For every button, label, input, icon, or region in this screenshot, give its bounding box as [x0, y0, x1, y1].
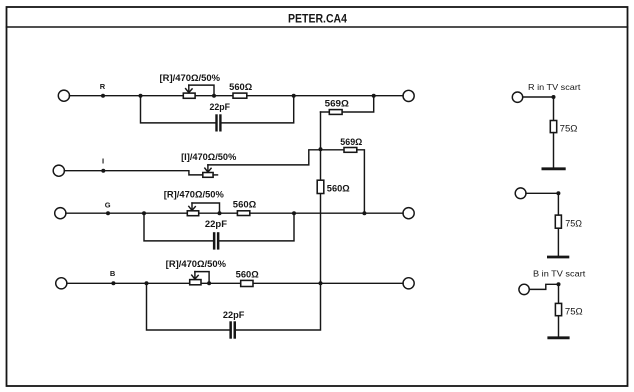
terminal G input [55, 208, 66, 219]
wire 569 to main vertical [321, 111, 330, 113]
wire B row main [67, 282, 403, 284]
svg-text:75Ω: 75Ω [565, 306, 583, 316]
terminal R output [403, 90, 414, 101]
svg-text:22pF: 22pF [223, 310, 245, 320]
node G label dot [106, 211, 110, 215]
resistor R3 569 body [329, 110, 342, 115]
resistor R9 75 body [555, 215, 561, 228]
terminal B scart [519, 284, 529, 294]
svg-text:G: G [105, 200, 111, 209]
svg-text:B: B [110, 269, 116, 278]
node B scart junction [557, 282, 561, 286]
ground G scart [548, 256, 568, 259]
wire main vertical bus [320, 112, 322, 283]
resistor R5 569 body [344, 148, 357, 153]
terminal R scart [512, 92, 522, 102]
node G cap right junction [292, 211, 296, 215]
potentiometer P1 wiper arrow [186, 85, 214, 96]
wire B cap branch right [236, 283, 320, 330]
potentiometer P4 body [190, 280, 201, 285]
potentiometer P2 body [203, 173, 213, 178]
wire R10 to ground [558, 316, 560, 338]
node R label dot [101, 94, 105, 98]
wire I row main [64, 171, 202, 175]
wire G cap branch [144, 213, 213, 241]
potentiometer P1 body [183, 93, 195, 98]
node R cap left junction [139, 94, 143, 98]
node G 569 junction [362, 211, 366, 215]
title separator line [7, 26, 628, 28]
svg-text:R in TV scart: R in TV scart [528, 82, 581, 92]
terminal B input [56, 278, 67, 289]
node G cap left junction [142, 211, 146, 215]
ground B scart [549, 336, 568, 339]
node R 569 branch junction [372, 94, 376, 98]
svg-text:560Ω: 560Ω [229, 82, 252, 92]
terminal B output [403, 278, 414, 289]
node P4 wiper junction [207, 281, 211, 285]
wire P2 right stub [213, 174, 217, 176]
potentiometer P2 wiper arrow [205, 150, 321, 172]
wire R5 down to G row [357, 150, 365, 213]
node B cap left junction [145, 281, 149, 285]
node P1 wiper junction [212, 94, 216, 98]
wire R9 to ground [557, 228, 559, 257]
node R cap right junction [292, 94, 296, 98]
potentiometer P3 body [187, 211, 198, 216]
resistor R10 75 body [555, 303, 561, 315]
resistor R4 560 vertical body [317, 180, 324, 193]
wire B scart [529, 284, 558, 303]
svg-text:22pF: 22pF [205, 219, 228, 229]
resistor R8 75 body [550, 121, 556, 133]
terminal G scart [515, 188, 526, 199]
node I wiper on vertical [319, 147, 323, 151]
svg-text:[R]/470Ω/50%: [R]/470Ω/50% [160, 73, 221, 83]
potentiometer P4 wiper arrow [192, 272, 209, 284]
potentiometer P3 wiper arrow [189, 203, 220, 213]
node G scart junction [556, 191, 560, 195]
node B label dot [111, 281, 115, 285]
terminal I input [53, 165, 64, 176]
wire R cap branch [141, 96, 216, 123]
wire R cap branch right [222, 96, 294, 123]
svg-text:R: R [100, 82, 106, 91]
svg-text:B in TV scart: B in TV scart [533, 269, 586, 279]
terminal R input [58, 90, 69, 101]
svg-text:560Ω: 560Ω [233, 199, 256, 209]
terminal G output [403, 208, 414, 219]
svg-text:569Ω: 569Ω [340, 137, 362, 147]
resistor R6 560 body [237, 211, 249, 216]
wire R scart [523, 97, 554, 121]
resistor R7 560 body [241, 280, 253, 286]
wire G scart [526, 193, 558, 215]
svg-text:560Ω: 560Ω [236, 269, 259, 279]
svg-text:75Ω: 75Ω [565, 218, 582, 228]
wire B cap branch [147, 283, 230, 330]
svg-text:569Ω: 569Ω [325, 99, 349, 109]
resistor R2 560 body [233, 93, 247, 98]
svg-text:22pF: 22pF [210, 102, 231, 112]
node P3 wiper junction [218, 211, 222, 215]
wire R row main [70, 95, 404, 97]
wire 569 branch from R row [342, 96, 374, 112]
svg-text:[R]/470Ω/50%: [R]/470Ω/50% [164, 189, 224, 199]
svg-text:560Ω: 560Ω [327, 184, 350, 194]
wire G row main [66, 212, 403, 214]
node I label dot [101, 169, 105, 173]
ground R scart [543, 167, 564, 170]
svg-text:PETER.CA4: PETER.CA4 [288, 12, 347, 26]
node R scart junction [552, 95, 556, 99]
svg-text:[I]/470Ω/50%: [I]/470Ω/50% [181, 152, 236, 162]
wire 569 second branch [321, 149, 345, 151]
svg-text:75Ω: 75Ω [560, 123, 578, 133]
capacitor C1 22pF plates [215, 114, 221, 131]
wire R8 to ground [553, 133, 555, 169]
node B vertical junction [319, 281, 323, 285]
capacitor C2 22pF plates [213, 232, 220, 249]
capacitor C3 22pF plates [229, 321, 236, 338]
svg-text:[R]/470Ω/50%: [R]/470Ω/50% [166, 259, 226, 269]
wire G cap branch right [220, 213, 295, 241]
svg-text:I: I [102, 156, 104, 165]
